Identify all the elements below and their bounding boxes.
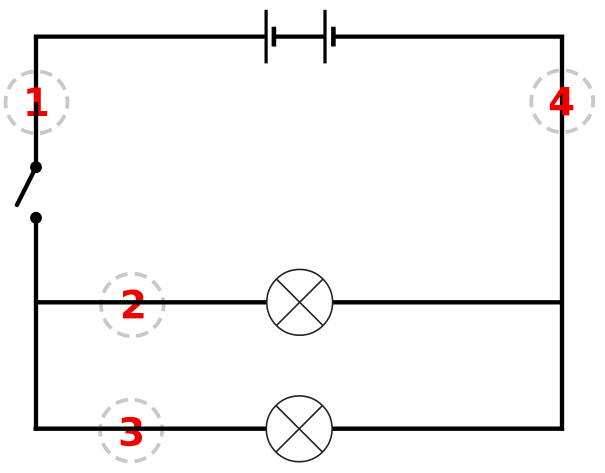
node 2 marker (dashed circle) <box>101 274 164 337</box>
battery B1 cell 1 short plate <box>272 27 277 47</box>
node 2 label "2" <box>123 290 144 319</box>
wire: left vertical, top corner to node 1 <box>34 35 38 103</box>
node 1 label "1" <box>27 88 47 116</box>
battery B1 cell 1 long plate <box>265 10 268 64</box>
lamp L2 body (bottom branch) <box>266 396 332 462</box>
lamp L2 cross diagonal NW-SE <box>276 406 323 453</box>
wire: left vertical, node 1 to switch <box>34 102 38 167</box>
wire: bottom branch <box>34 427 565 431</box>
switch S1 blade (open) <box>17 167 36 205</box>
wire: top right segment <box>333 34 564 38</box>
lamp L2 cross diagonal NE-SW <box>276 406 323 453</box>
node 1 marker (dashed circle) <box>6 71 68 133</box>
node 3 label "3" <box>121 417 142 446</box>
battery B1 cell 2 long plate <box>323 10 326 64</box>
switch S1 upper contact dot <box>30 161 42 173</box>
node 3 marker (dashed circle) <box>100 400 162 462</box>
wire: middle branch <box>34 300 562 304</box>
wire: right vertical <box>560 35 564 431</box>
wire: left vertical lower (switch to bottom corner) <box>34 218 38 431</box>
node 4 label "4" (drawn over wire) <box>550 87 574 115</box>
node 4 marker (dashed circle) <box>531 70 593 132</box>
switch S1 lower contact dot <box>30 212 42 224</box>
wire: between battery cells <box>274 34 325 38</box>
lamp L1 body (middle branch) <box>267 269 333 335</box>
lamp L1 cross diagonal NE-SW <box>276 279 323 326</box>
lamp L1 cross diagonal NW-SE <box>276 279 323 326</box>
battery B1 cell 2 short plate <box>331 27 336 47</box>
wire: top left segment <box>34 34 266 38</box>
